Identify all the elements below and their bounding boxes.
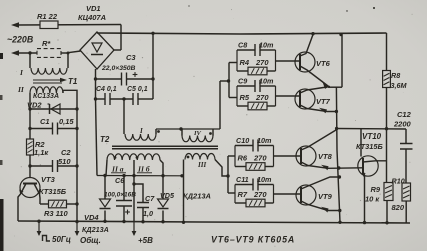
svg-text:R9: R9 xyxy=(371,185,381,194)
svg-text:I: I xyxy=(139,127,143,135)
svg-text:270: 270 xyxy=(255,93,269,102)
svg-text:VТ6–VТ9 КТ605А: VТ6–VТ9 КТ605А xyxy=(211,235,295,245)
svg-text:0,15: 0,15 xyxy=(59,117,74,126)
svg-text:R*: R* xyxy=(42,39,51,48)
svg-text:3,6М: 3,6М xyxy=(391,81,408,90)
svg-text:С9: С9 xyxy=(238,77,247,86)
svg-text:VТ8: VТ8 xyxy=(318,152,333,161)
svg-text:Т2: Т2 xyxy=(100,135,110,144)
svg-text:IV: IV xyxy=(193,130,202,137)
svg-text:Т1: Т1 xyxy=(68,77,78,86)
svg-text:270: 270 xyxy=(255,58,269,67)
svg-text:1,0: 1,0 xyxy=(143,209,153,218)
svg-text:С7: С7 xyxy=(145,194,155,203)
svg-text:10т: 10т xyxy=(259,41,274,50)
svg-text:270: 270 xyxy=(253,190,267,199)
svg-text:R3 110: R3 110 xyxy=(44,209,68,218)
svg-text:2200: 2200 xyxy=(393,120,412,129)
svg-text:+5В: +5В xyxy=(138,236,153,245)
svg-text:R7: R7 xyxy=(238,190,248,199)
svg-text:10т: 10т xyxy=(259,77,274,86)
svg-text:820: 820 xyxy=(392,203,405,212)
svg-text:КС133А: КС133А xyxy=(33,93,59,100)
svg-text:КЦ407А: КЦ407А xyxy=(78,13,106,22)
svg-text:10т: 10т xyxy=(257,175,272,184)
svg-text:КТ315Б: КТ315Б xyxy=(39,187,67,196)
svg-text:22,0×350В: 22,0×350В xyxy=(101,65,136,72)
svg-text:50Гц: 50Гц xyxy=(52,235,71,244)
svg-text:VТ9: VТ9 xyxy=(318,192,333,201)
svg-text:III: III xyxy=(197,161,206,169)
svg-text:R4: R4 xyxy=(240,58,250,67)
svg-text:VD5: VD5 xyxy=(160,191,175,200)
svg-text:R6: R6 xyxy=(238,154,248,163)
svg-text:VТ3: VТ3 xyxy=(41,175,56,184)
svg-text:КД213А: КД213А xyxy=(183,192,211,201)
svg-text:КД213А: КД213А xyxy=(82,225,109,234)
svg-text:С11: С11 xyxy=(236,175,249,184)
svg-text:1,1к: 1,1к xyxy=(34,148,49,157)
svg-text:С8: С8 xyxy=(238,41,247,50)
svg-text:II а: II а xyxy=(111,165,124,174)
svg-text:VD1: VD1 xyxy=(86,4,101,13)
svg-text:С1: С1 xyxy=(40,117,50,126)
svg-text:270: 270 xyxy=(253,154,267,163)
svg-text:VТ6: VТ6 xyxy=(316,59,331,68)
svg-text:С6: С6 xyxy=(115,176,125,185)
svg-text:С5 0,1: С5 0,1 xyxy=(127,86,148,93)
svg-text:Общ.: Общ. xyxy=(80,236,101,245)
svg-text:10 к: 10 к xyxy=(365,195,380,204)
svg-text:С2: С2 xyxy=(61,148,71,157)
svg-text:С10: С10 xyxy=(236,136,249,145)
svg-text:~220В: ~220В xyxy=(7,35,34,45)
svg-text:II б: II б xyxy=(137,165,151,174)
svg-text:КТ315Б: КТ315Б xyxy=(356,142,383,151)
svg-text:С3: С3 xyxy=(126,53,136,62)
svg-text:VТ10: VТ10 xyxy=(362,132,382,141)
svg-text:R5: R5 xyxy=(240,93,250,102)
svg-text:R1 22: R1 22 xyxy=(37,12,58,21)
svg-text:II: II xyxy=(17,85,25,94)
svg-text:100,0×16В: 100,0×16В xyxy=(104,192,136,199)
svg-text:R8: R8 xyxy=(391,71,400,80)
svg-text:VD4: VD4 xyxy=(84,213,99,222)
svg-text:510: 510 xyxy=(58,157,71,166)
svg-text:С12: С12 xyxy=(397,110,412,119)
svg-text:R10: R10 xyxy=(392,177,405,186)
svg-text:VТ7: VТ7 xyxy=(316,97,331,106)
svg-text:С4 0,1: С4 0,1 xyxy=(96,86,117,93)
svg-text:10т: 10т xyxy=(257,136,272,145)
